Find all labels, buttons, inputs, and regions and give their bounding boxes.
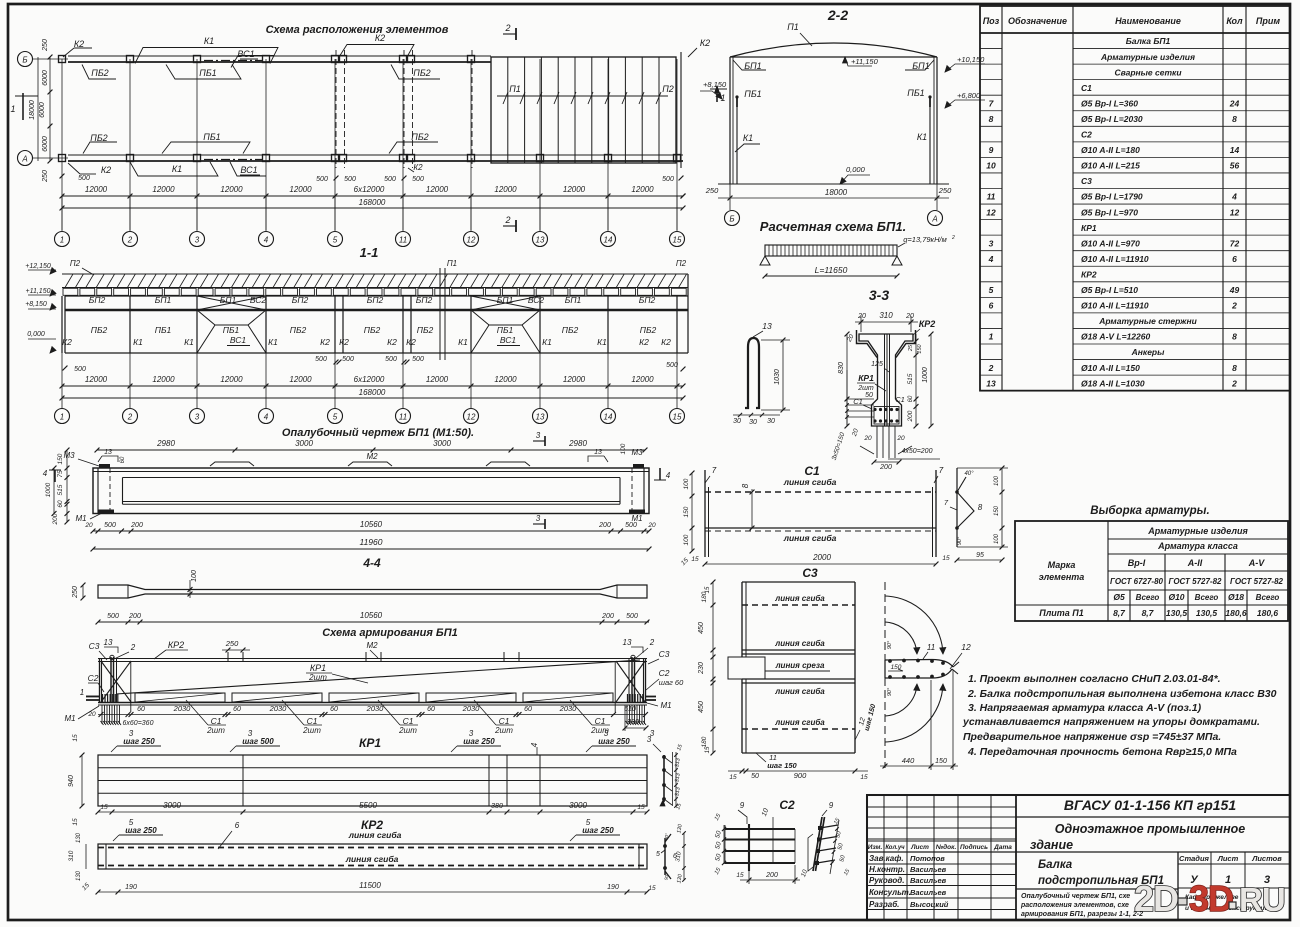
svg-text:180,6: 180,6 (1225, 608, 1247, 618)
armature: tendon stubs protruding at left end (86, 696, 99, 698)
svg-text:0,000: 0,000 (846, 165, 866, 174)
loop: arcs above (885, 596, 943, 654)
1-1: break mark between 5 and 11 (439, 268, 441, 360)
svg-text:900: 900 (794, 771, 807, 780)
svg-text:250: 250 (42, 170, 49, 183)
svg-text:1: 1 (989, 332, 994, 342)
svg-text:15: 15 (72, 818, 79, 826)
svg-text:2шт: 2шт (857, 385, 874, 392)
svg-text:75: 75 (57, 470, 64, 478)
svg-text:Всего: Всего (1195, 593, 1219, 602)
design scheme: distributed load strip (765, 245, 897, 256)
svg-text:ПБ1: ПБ1 (155, 325, 172, 335)
svg-text:13: 13 (536, 413, 545, 422)
svg-text:200: 200 (598, 522, 611, 529)
svg-text:12000: 12000 (631, 375, 654, 384)
svg-text:К1: К1 (917, 132, 927, 142)
svg-text:130: 130 (76, 870, 82, 881)
C1 bend: 95 dim (957, 559, 1002, 561)
armature: left end zone X diagonals (101, 661, 131, 702)
svg-text:12000: 12000 (152, 185, 175, 194)
KP1: longitudinal bars (98, 767, 647, 769)
svg-text:13: 13 (594, 449, 602, 456)
svg-text:Ø5 Вр-I L=510: Ø5 Вр-I L=510 (1081, 285, 1138, 295)
svg-text:2шт: 2шт (308, 673, 327, 682)
svg-text:К2: К2 (700, 38, 710, 48)
svg-text:200: 200 (879, 464, 892, 471)
svg-text:С1: С1 (1081, 83, 1092, 93)
svg-text:ГОСТ 5727-82: ГОСТ 5727-82 (1169, 577, 1223, 586)
svg-text:14: 14 (604, 236, 613, 245)
svg-text:150: 150 (917, 343, 923, 353)
armature: left hairpin bars 13 (110, 657, 112, 703)
svg-text:15: 15 (705, 746, 711, 753)
svg-text:ПБ2: ПБ2 (413, 68, 430, 78)
svg-text:2шт: 2шт (302, 726, 321, 735)
armature: 250 dim top (222, 649, 250, 651)
svg-text:А: А (931, 215, 937, 224)
svg-text:12000: 12000 (426, 185, 449, 194)
svg-text:К1: К1 (458, 337, 468, 347)
plan: section mark 2 top and bottom (503, 33, 516, 35)
armature: right hairpin bars 13 (631, 657, 633, 703)
C1: bottom dim 2000 (705, 563, 936, 565)
svg-text:60: 60 (233, 706, 241, 713)
svg-text:8,7: 8,7 (1113, 608, 1126, 618)
3-3: bottom block rebar dots (873, 408, 876, 411)
C1: right edge bars (935, 470, 937, 557)
svg-text:250: 250 (42, 39, 49, 52)
svg-text:линия сгиба: линия сгиба (783, 533, 837, 543)
svg-text:12: 12 (467, 413, 476, 422)
svg-text:130,5: 130,5 (1196, 608, 1218, 618)
svg-text:100: 100 (191, 570, 198, 582)
svg-text:К1: К1 (133, 337, 143, 347)
formwork: hidden dashed lines at ends (109, 468, 111, 514)
svg-text:М1: М1 (64, 714, 75, 723)
hairpin: dim 1030 (782, 340, 784, 410)
svg-text:линия сгиба: линия сгиба (774, 594, 825, 603)
rebar table frame (1015, 521, 1288, 621)
svg-text:12000: 12000 (494, 185, 517, 194)
svg-text:Ø5 Вр-I L=1790: Ø5 Вр-I L=1790 (1081, 192, 1143, 202)
svg-text:Изм.: Изм. (868, 844, 883, 851)
svg-text:13: 13 (104, 638, 113, 647)
svg-text:4. Передаточная прочность бето: 4. Передаточная прочность бетона Rвр≥15,… (967, 746, 1237, 758)
svg-text:БП1: БП1 (744, 61, 761, 71)
svg-text:2030: 2030 (173, 704, 192, 713)
C3: top edge (742, 581, 855, 583)
svg-text:18000: 18000 (29, 100, 36, 120)
2-2: left wall (729, 57, 731, 184)
svg-text:1: 1 (60, 413, 64, 422)
svg-text:линия среза: линия среза (775, 661, 825, 670)
svg-text:С2: С2 (88, 673, 99, 683)
svg-text:60: 60 (137, 706, 145, 713)
KP1: verticals (242, 755, 244, 806)
svg-text:250: 250 (225, 639, 239, 648)
svg-text:ПБ2: ПБ2 (562, 325, 579, 335)
formwork: beam top second line (93, 471, 649, 473)
svg-text:40°: 40° (964, 471, 974, 477)
svg-text:90°: 90° (957, 536, 963, 545)
plan: axis А girder line (68, 154, 683, 156)
svg-text:Н.контр.: Н.контр. (869, 865, 905, 874)
3-3: anchor strands below block (876, 426, 878, 458)
svg-text:9: 9 (829, 801, 834, 810)
plan: section mark 1 right (near 2-2) (716, 86, 718, 102)
svg-text:3: 3 (469, 729, 474, 738)
svg-text:линия сгиба: линия сгиба (348, 830, 402, 840)
svg-text:8: 8 (741, 483, 750, 488)
svg-text:Всего: Всего (1256, 593, 1280, 602)
svg-text:Подпись: Подпись (960, 843, 988, 851)
svg-text:6000: 6000 (39, 102, 46, 118)
svg-text:Зав.каф.: Зав.каф. (869, 854, 904, 863)
svg-text:3. Напрягаемая арматура класса: 3. Напрягаемая арматура класса А-V (поз.… (968, 702, 1202, 714)
formwork: web top line (123, 477, 621, 479)
svg-text:Ø18 А-II L=1030: Ø18 А-II L=1030 (1081, 378, 1145, 388)
svg-text:3: 3 (195, 413, 200, 422)
svg-text:2: 2 (130, 643, 136, 652)
svg-text:К2: К2 (62, 337, 72, 347)
svg-text:3000: 3000 (163, 801, 181, 810)
svg-text:Ø10 А-II L=215: Ø10 А-II L=215 (1081, 161, 1140, 171)
svg-text:310: 310 (68, 850, 75, 861)
svg-text:армирования БП1, разрезы 1-1,: армирования БП1, разрезы 1-1, 2-2 (1021, 911, 1143, 918)
svg-text:БП1: БП1 (912, 61, 929, 71)
svg-text:15: 15 (100, 804, 108, 811)
svg-text:К1: К1 (204, 36, 214, 46)
svg-text:1: 1 (10, 104, 15, 114)
svg-text:Выборка арматуры.: Выборка арматуры. (1090, 505, 1209, 517)
svg-text:Опалубочный чертеж БП1, схе: Опалубочный чертеж БП1, схе (1021, 892, 1130, 900)
anchor loop detail poz 11-12 (884, 582, 886, 768)
C3: left dim chain (712, 582, 714, 753)
svg-text:КР1: КР1 (858, 373, 874, 383)
plan: grid lines verticals (61, 59, 63, 230)
svg-text:8: 8 (989, 114, 994, 124)
formwork: web end verticals (122, 478, 124, 505)
formwork: section mark 4 (54, 470, 56, 482)
title block: left rows (867, 806, 1016, 808)
svg-text:ПБ2: ПБ2 (91, 325, 108, 335)
svg-text:14: 14 (604, 413, 613, 422)
svg-text:15: 15 (691, 556, 699, 563)
C3: bottom edge (742, 752, 855, 754)
svg-text:Марка: Марка (1048, 560, 1076, 570)
svg-text:60: 60 (330, 706, 338, 713)
armature: left anchor tails below with arrows (101, 705, 103, 724)
C1: middle solid bars (705, 527, 936, 529)
svg-text:Консульт.: Консульт. (869, 888, 911, 897)
svg-text:50: 50 (751, 773, 759, 780)
svg-text:12: 12 (1230, 207, 1240, 217)
svg-text:Арматурные изделия: Арматурные изделия (1147, 526, 1248, 536)
svg-text:К1: К1 (597, 337, 607, 347)
svg-text:А-II: А-II (1187, 558, 1203, 568)
svg-text:К1: К1 (172, 164, 182, 174)
svg-text:КР1: КР1 (310, 663, 326, 673)
svg-text:С2: С2 (779, 798, 795, 812)
svg-text:П2: П2 (676, 259, 687, 268)
svg-text:+11,150: +11,150 (26, 288, 51, 295)
svg-text:11: 11 (399, 413, 407, 422)
svg-text:Вр-I: Вр-I (1128, 558, 1146, 568)
armature: right end zone X diagonals (616, 661, 645, 702)
svg-text:С1: С1 (211, 716, 222, 726)
svg-text:3: 3 (647, 735, 652, 744)
svg-text:БП1: БП1 (565, 295, 582, 305)
svg-text:К2: К2 (413, 163, 423, 172)
svg-text:ГОСТ 5727-82: ГОСТ 5727-82 (1230, 577, 1284, 586)
svg-text:13: 13 (762, 321, 772, 331)
svg-text:К1: К1 (542, 337, 552, 347)
svg-text:2030: 2030 (269, 704, 288, 713)
svg-text:20: 20 (857, 313, 866, 320)
svg-text:Б: Б (729, 215, 734, 224)
svg-text:49: 49 (1229, 285, 1240, 295)
svg-text:1: 1 (60, 236, 64, 245)
svg-text:Расчетная схема БП1.: Расчетная схема БП1. (760, 219, 906, 234)
2-2: ground line (718, 183, 949, 185)
svg-text:П1: П1 (509, 84, 521, 94)
svg-text:2980: 2980 (568, 439, 587, 448)
svg-text:3000: 3000 (569, 801, 587, 810)
svg-text:элемента: элемента (1039, 572, 1085, 582)
svg-text:2: 2 (649, 638, 655, 647)
svg-text:13: 13 (536, 236, 545, 245)
svg-text:440: 440 (902, 756, 915, 765)
armature: top chord double line (98, 658, 647, 660)
svg-text:шаг 60: шаг 60 (659, 678, 684, 687)
KP2: right side bend detail (664, 838, 666, 875)
svg-text:190: 190 (125, 884, 137, 891)
svg-text:С1: С1 (499, 716, 510, 726)
svg-text:90°: 90° (887, 640, 893, 649)
svg-text:Лист: Лист (1217, 854, 1239, 863)
svg-text:Кол: Кол (1226, 16, 1243, 26)
svg-text:БП2: БП2 (89, 295, 106, 305)
design scheme: span dim (765, 275, 897, 277)
svg-text:линия сгиба: линия сгиба (774, 687, 825, 696)
svg-text:К2: К2 (375, 33, 385, 43)
svg-text:15: 15 (860, 774, 868, 781)
svg-text:12000: 12000 (220, 185, 243, 194)
4-4: thin beam with flared ends (98, 585, 647, 598)
svg-text:20: 20 (896, 435, 905, 442)
svg-text:ГОСТ 6727-80: ГОСТ 6727-80 (1110, 577, 1164, 586)
1-1: girder row БП (top) (65, 295, 688, 297)
armature: M2 tick marks on top chord (227, 652, 229, 662)
svg-text:К2: К2 (406, 337, 416, 347)
svg-text:КР1: КР1 (1081, 223, 1097, 233)
svg-text:Васильев: Васильев (910, 876, 947, 885)
svg-text:13: 13 (623, 638, 632, 647)
svg-text:190: 190 (607, 884, 619, 891)
svg-text:150: 150 (935, 758, 947, 765)
plan: ВС1 dash-dot line top (204, 60, 263, 62)
svg-text:0,000: 0,000 (27, 331, 45, 338)
svg-text:6: 6 (1232, 254, 1237, 264)
C3: verticals (741, 582, 743, 753)
svg-text:500: 500 (315, 356, 327, 363)
svg-text:12: 12 (986, 207, 996, 217)
svg-text:К2: К2 (101, 165, 111, 175)
svg-text:5: 5 (989, 285, 994, 295)
svg-text:6000: 6000 (42, 70, 49, 86)
svg-text:П2: П2 (662, 84, 674, 94)
svg-text:С3: С3 (802, 566, 818, 580)
svg-text:М1: М1 (660, 701, 671, 710)
1-1: columns verticals (61, 296, 63, 353)
svg-text:1: 1 (80, 688, 84, 697)
svg-text:БП2: БП2 (367, 295, 384, 305)
plan: precast slab field П1/П2 (491, 57, 676, 163)
plan: slab right edge line (680, 52, 682, 168)
svg-text:Ø10 А-II L=180: Ø10 А-II L=180 (1081, 145, 1140, 155)
1-1: expansion joint double columns (342, 296, 344, 353)
formwork: web bottom lines (123, 501, 621, 503)
svg-text:125: 125 (871, 361, 883, 368)
svg-text:Поз: Поз (983, 16, 1000, 26)
KP2 right detail dims (683, 833, 685, 880)
svg-text:18000: 18000 (825, 188, 848, 197)
svg-text:12000: 12000 (152, 375, 175, 384)
svg-text:+10,150: +10,150 (957, 55, 985, 64)
KP2: bottom dims (98, 891, 647, 893)
svg-text:12000: 12000 (426, 375, 449, 384)
components specification table (980, 6, 1290, 391)
svg-text:2: 2 (1231, 378, 1237, 388)
svg-text:М2: М2 (366, 452, 378, 461)
svg-text:11: 11 (927, 643, 935, 652)
svg-text:1000: 1000 (922, 367, 929, 383)
svg-text:380: 380 (627, 719, 639, 726)
svg-text:Опалубочный чертеж БП1 (М1:50): Опалубочный чертеж БП1 (М1:50). (282, 427, 474, 439)
C2: side view slant bar (813, 817, 822, 871)
svg-text:12000: 12000 (494, 375, 517, 384)
3-3: web tendon bars (884, 334, 886, 426)
svg-text:100: 100 (994, 475, 1000, 486)
plan: expansion joint dashed axes 5-11 (335, 50, 337, 168)
svg-text:устанавливается напряжением на: устанавливается напряжением на упоры дом… (962, 716, 1260, 728)
svg-text:150: 150 (57, 453, 64, 464)
svg-text:Ø5 Вр-I L=360: Ø5 Вр-I L=360 (1081, 98, 1138, 108)
svg-text:20: 20 (87, 711, 96, 718)
svg-text:4: 4 (43, 469, 48, 478)
plan: paired columns at expansion joint (axes 5, 11) (340, 56, 347, 63)
svg-text:100: 100 (994, 533, 1000, 544)
svg-text:5: 5 (656, 851, 660, 858)
3-3: C1 mesh outline in bottom block (874, 407, 899, 425)
3-3: 1000 dim chain (930, 334, 932, 426)
svg-text:2: 2 (951, 235, 955, 241)
svg-text:3000: 3000 (433, 439, 451, 448)
svg-text:12: 12 (467, 236, 476, 245)
svg-text:А-V: А-V (1248, 558, 1265, 568)
svg-text:7: 7 (939, 466, 944, 475)
3-3: top dim 20/310/20 (855, 321, 918, 323)
svg-text:8: 8 (1232, 114, 1237, 124)
1-1: X-brace bays (3-4 and 12-13) (197, 296, 266, 310)
svg-text:Арматурные стержни: Арматурные стержни (1098, 316, 1197, 326)
svg-text:12000: 12000 (220, 375, 243, 384)
1-1: dimension rows (62, 385, 683, 387)
svg-text:12: 12 (961, 642, 971, 652)
svg-text:шаг 250: шаг 250 (582, 826, 614, 835)
svg-text:2030: 2030 (462, 704, 481, 713)
svg-text:12000: 12000 (563, 375, 586, 384)
svg-text:8: 8 (978, 503, 983, 512)
title block: element name cell Балка подстропильная БП1 (1016, 888, 1178, 890)
3-3: right dim chain 515/60/200 (915, 334, 917, 426)
svg-text:5: 5 (129, 818, 134, 827)
svg-text:С1: С1 (804, 464, 820, 478)
svg-text:500: 500 (74, 366, 86, 373)
formwork: M1 bottom plates (98, 510, 114, 514)
svg-text:+6,800: +6,800 (957, 91, 981, 100)
svg-text:Ø10 А-II L=970: Ø10 А-II L=970 (1081, 238, 1140, 248)
svg-text:Разраб.: Разраб. (869, 900, 899, 909)
svg-text:500: 500 (104, 522, 116, 529)
svg-text:ПБ1: ПБ1 (199, 68, 216, 78)
svg-text:2: 2 (988, 363, 994, 373)
svg-text:8: 8 (1232, 363, 1237, 373)
svg-text:К2: К2 (320, 337, 330, 347)
plan: section mark 1 left (22, 93, 24, 120)
svg-text:4: 4 (264, 413, 269, 422)
svg-text:1030: 1030 (774, 369, 781, 385)
svg-text:ПБ2: ПБ2 (91, 68, 108, 78)
C2: bottom dims (740, 879, 800, 881)
svg-text:500: 500 (412, 356, 424, 363)
svg-text:15: 15 (637, 804, 645, 811)
svg-text:Руковод.: Руковод. (869, 876, 904, 885)
armature: draped tendon diagonal (116, 660, 640, 694)
svg-text:515: 515 (907, 373, 914, 384)
svg-text:2шт: 2шт (494, 726, 513, 735)
plan: left dimension chain 250/6000x3/250 and 18000 (49, 57, 51, 161)
svg-text:4: 4 (1231, 192, 1237, 202)
svg-text:515: 515 (57, 484, 64, 495)
svg-text:ПБ2: ПБ2 (640, 325, 657, 335)
svg-text:Б: Б (22, 56, 27, 65)
svg-text:П2: П2 (70, 259, 81, 268)
formwork: section mark 3 bottom (533, 523, 545, 525)
svg-text:2: 2 (127, 236, 133, 245)
KP1: bottom dims (98, 811, 647, 813)
svg-text:ВГАСУ 01-1-156 КП гр151: ВГАСУ 01-1-156 КП гр151 (1064, 797, 1236, 813)
svg-text:шаг 150: шаг 150 (767, 761, 797, 770)
svg-text:П1: П1 (787, 22, 799, 32)
svg-text:250: 250 (938, 186, 952, 195)
svg-text:3: 3 (989, 238, 994, 248)
svg-text:12000: 12000 (289, 375, 312, 384)
svg-text:+12,150: +12,150 (25, 263, 51, 270)
svg-text:24: 24 (1229, 98, 1240, 108)
svg-text:100: 100 (683, 534, 690, 545)
svg-text:К1: К1 (743, 133, 753, 143)
svg-text:С1: С1 (895, 395, 905, 404)
svg-text:Листов: Листов (1251, 854, 1282, 863)
C1 bend: right dim chain 100/150/100 (1001, 468, 1003, 547)
svg-text:200: 200 (601, 613, 614, 620)
svg-text:180,6: 180,6 (1257, 608, 1279, 618)
svg-text:расположения элементов, схе: расположения элементов, схе (1020, 902, 1129, 909)
4-4: bottom dims (98, 621, 649, 623)
svg-text:шаг 250: шаг 250 (598, 737, 630, 746)
